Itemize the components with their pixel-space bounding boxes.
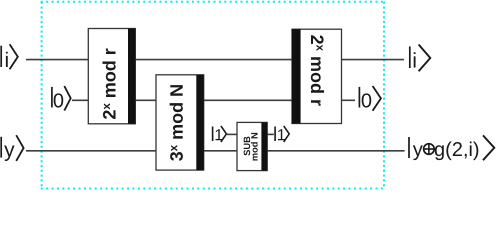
wire |0> between U2 and U4 — [204, 99, 292, 101]
wire |y> left segment — [26, 150, 156, 152]
gate U3 thick bar — [261, 122, 267, 170]
gate U3 label "mod N" — [251, 133, 258, 161]
gate U2 label "3^x mod N" — [170, 85, 183, 161]
ket |1> right of U3: angle bracket — [284, 126, 290, 142]
ket |0> input: digit 0 — [54, 93, 64, 107]
ket |y xor g(2,i)> output: text g(2,i) — [435, 142, 478, 161]
ket |i> input: letter i — [6, 52, 8, 67]
xor symbol circle-plus — [423, 143, 434, 154]
ket |y xor g(2,i)> output: letter y — [413, 145, 423, 160]
gate U2 box: 3^x mod N — [156, 75, 204, 170]
wire |0> stub out of U4 — [342, 99, 356, 101]
ancilla |1> wire stub into U3 — [227, 133, 237, 135]
ket |1> right of U3: bar — [274, 127, 276, 142]
ancilla |1> wire stub out of U3 — [267, 133, 274, 135]
gate U3 box: SUB mod N — [237, 122, 267, 170]
gate U4 thick bar (left side) — [292, 29, 301, 123]
gate U1 box: 2^x mod r — [88, 29, 135, 124]
ket |y> input: bar — [0, 137, 2, 158]
ket |i> output: letter i — [414, 52, 416, 67]
wire |0> stub into U1 — [72, 99, 88, 101]
ket |y> input: angle bracket — [16, 135, 23, 161]
ket |y> input: letter y — [4, 146, 14, 161]
gate U2 thick bar — [196, 75, 203, 170]
gate U1 thick bar — [128, 29, 135, 124]
ket |y xor g(2,i)> output: bar — [408, 137, 410, 158]
ket |1> left of U3: angle bracket — [221, 126, 227, 142]
gate U3 label "SUB" — [244, 137, 251, 156]
ket |1> left of U3: digit 1 — [216, 129, 223, 140]
ket |0> output: bar — [358, 87, 360, 108]
wire |y> between U2 and U3 — [204, 150, 237, 152]
ket |i> input: bar — [0, 46, 2, 67]
gate U4 box: inverse 2^x mod r — [292, 29, 342, 123]
wire |0> between U1 and U2 — [135, 99, 156, 101]
ket |0> input: bar — [51, 87, 53, 108]
ket |i> input: angle bracket — [10, 44, 18, 69]
ket |1> left of U3: bar — [212, 127, 214, 142]
ket |0> output: angle bracket — [373, 86, 381, 111]
ket |0> input: angle bracket — [64, 86, 70, 111]
ket |1> right of U3: digit 1 — [278, 129, 285, 140]
ket |i> output: angle bracket — [419, 45, 431, 72]
wire |y> right segment — [267, 150, 404, 152]
wire |i> right segment — [342, 59, 405, 61]
ket |y xor g(2,i)> output: angle bracket — [483, 135, 494, 160]
wire |i> left segment — [26, 59, 88, 61]
gate U1 label "2^x mod r" — [102, 48, 115, 119]
wire |i> middle segment (U1 to U4) — [135, 59, 292, 61]
dashed cyan selection border — [41, 2, 385, 189]
ket |0> output: digit 0 — [362, 93, 372, 107]
ket |i> output: bar — [409, 46, 411, 68]
gate U4 label "2^x mod r" — [311, 35, 324, 106]
